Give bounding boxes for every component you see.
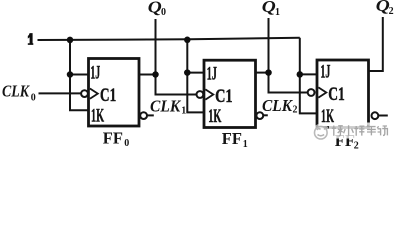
FF0 dynamic clock triangle [90, 89, 98, 99]
watermark text (stylized gray CJK-like strokes) [332, 125, 388, 136]
watermark logo [315, 126, 328, 139]
wire: FF1 1J input [187, 72, 204, 74]
junction dot: FF1 J feed [184, 69, 191, 76]
wire: FF2 Q output with Q2 vertical line [369, 17, 383, 71]
bubble: FF2 clock input [308, 89, 315, 96]
svg-text:Q: Q [262, 0, 276, 16]
svg-text:FF: FF [222, 129, 242, 148]
wire: FF1 Qbar stub [263, 114, 268, 116]
svg-text:FF: FF [103, 128, 123, 147]
svg-text:0: 0 [31, 92, 36, 103]
wire: FF0 Qbar stub [147, 114, 154, 116]
svg-text:1: 1 [243, 139, 248, 150]
svg-text:1: 1 [181, 105, 186, 116]
wire: Q0 vertical line and clock run to FF1 [156, 19, 197, 95]
svg-text:2: 2 [293, 105, 298, 116]
svg-text:CLK: CLK [150, 97, 182, 116]
junction dot: FF1 Q / Q1 line [265, 69, 272, 76]
flip-flop FF2 box [317, 60, 369, 128]
wire: FF0 J/K feed vertical with K-row corner [70, 40, 89, 110]
junction dot: bus to FF1 feed [184, 37, 191, 44]
svg-text:CLK: CLK [2, 81, 30, 100]
svg-text:1J: 1J [90, 62, 100, 83]
svg-text:0: 0 [124, 138, 129, 149]
wire: FF1 J/K feed vertical with K-row corner [187, 39, 204, 112]
bubble: FF0 inverted output [140, 112, 147, 119]
bubble: FF0 clock input [81, 90, 88, 97]
svg-text:1J: 1J [207, 63, 217, 84]
net 1 (logic high) label [28, 33, 34, 45]
wire: FF2 Qbar stub [378, 115, 388, 117]
FF2 dynamic clock triangle [318, 87, 326, 97]
svg-text:0: 0 [161, 7, 166, 18]
svg-text:2: 2 [354, 140, 359, 150]
watermark halo [329, 123, 391, 139]
flip-flop FF1 box [204, 60, 256, 127]
bubble: FF2 inverted output [372, 112, 379, 119]
junction dot: FF0 J feed [67, 71, 74, 78]
svg-text:1: 1 [275, 7, 280, 18]
svg-text:C1: C1 [328, 84, 345, 105]
svg-text:Q: Q [148, 0, 162, 17]
junction dot: FF2 J feed [297, 71, 304, 78]
bubble: FF1 inverted output [256, 112, 263, 119]
svg-text:2: 2 [389, 6, 394, 17]
bubble: FF1 clock input [197, 91, 204, 98]
wire: Q1 vertical line and clock run to FF2 [269, 18, 308, 93]
junction dot: FF0 Q / Q0 line [152, 71, 159, 78]
svg-text:C1: C1 [100, 85, 116, 106]
wire: CLK0 to FF0 clock bubble [39, 92, 82, 94]
wire: FF0 Q output to Q0 node [139, 74, 156, 76]
wire: FF2 J/K feed vertical from bus corner [300, 38, 317, 114]
svg-text:1K: 1K [91, 105, 104, 126]
FF1 dynamic clock triangle [205, 89, 213, 99]
wire: FF0 1J input [70, 74, 89, 76]
flip-flop FF0 box [89, 59, 140, 127]
svg-text:CLK: CLK [262, 96, 294, 115]
junction dot: bus to FF0 feed [67, 37, 74, 44]
wire: logic-1 bus from label to FF2 feed corner [38, 38, 300, 40]
svg-text:C1: C1 [215, 86, 233, 107]
wire: FF2 1J input [300, 73, 317, 75]
svg-text:1J: 1J [320, 61, 330, 82]
svg-text:1K: 1K [208, 106, 221, 127]
wire: FF1 Q output to Q1 node [256, 72, 269, 74]
